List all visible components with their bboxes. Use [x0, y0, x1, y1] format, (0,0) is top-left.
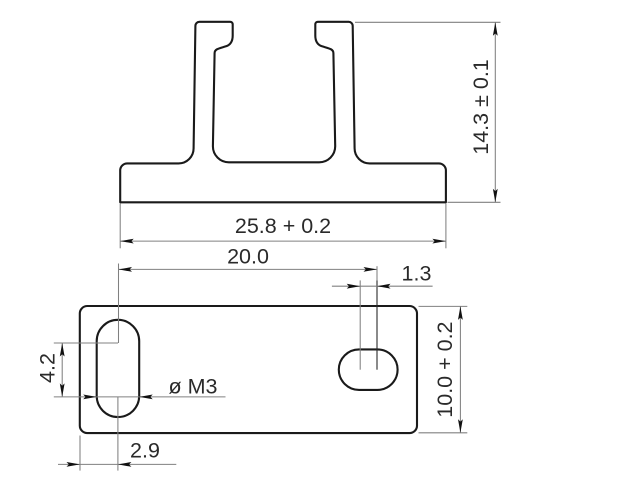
dim 1.3 arrow right (outside, pointing left): [377, 284, 391, 289]
profile outline (cross-section of bracket): [120, 22, 446, 203]
dim 4.2 dimension line: [61, 343, 63, 397]
dim 25.8 left extension line: [119, 204, 121, 249]
dim 25.8 arrow left: [120, 239, 134, 244]
dim 20.0 arrow left: [119, 267, 133, 272]
dim 4.2 arrow up: [60, 343, 65, 357]
dim 10.0 top extension line: [419, 305, 468, 307]
dim 1.3 left extension line: [359, 280, 361, 369]
dim 20.0 arrow right: [364, 267, 378, 272]
hole (right obround hole): [339, 349, 398, 390]
dim 2.9 arrow right (outside, pointing left): [118, 462, 131, 467]
svg-text:10.0 + 0.2: 10.0 + 0.2: [433, 321, 457, 417]
dim 4.2 arrow down: [60, 383, 65, 397]
dim 10.0 dimension line: [459, 306, 461, 432]
dim 25.8 arrow right: [432, 239, 446, 244]
svg-text:1.3: 1.3: [402, 262, 432, 286]
oM3 leader line (also 4.2 bottom extension): [54, 396, 226, 398]
svg-text:4.2: 4.2: [36, 353, 60, 383]
dim 1.3 dimension line: [332, 285, 433, 287]
slot centerline lower segment (2.9 right extension): [117, 397, 119, 471]
dim 14.3 dimension line: [494, 22, 496, 202]
dim 2.9 arrow left (outside, pointing right): [67, 462, 81, 467]
dim 20.0 dimension line: [119, 268, 378, 270]
svg-text:14.3 ± 0.1: 14.3 ± 0.1: [469, 59, 493, 154]
dim 10.0 bottom extension line: [419, 432, 468, 434]
dim 10.0 arrow up: [458, 306, 463, 320]
slot (left obround hole): [97, 320, 140, 417]
dim 4.2 top extension line: [54, 342, 118, 344]
plate outline (top view): [80, 306, 417, 433]
dim 14.3 top extension line: [355, 21, 501, 23]
oM3 arrow left (tip at slot left edge): [83, 395, 97, 400]
svg-text:20.0: 20.0: [227, 245, 269, 269]
dim 25.8 right extension line: [445, 204, 447, 249]
dim 14.3 arrow up: [493, 22, 498, 36]
dim 10.0 arrow down: [458, 419, 463, 433]
dim 2.9 dimension line: [58, 463, 176, 465]
dim 2.9 left extension line: [79, 436, 81, 471]
oM3 arrow right (tip at slot right edge): [139, 395, 153, 400]
dim 1.3 arrow left (outside, pointing right): [347, 284, 361, 289]
svg-text:25.8 + 0.2: 25.8 + 0.2: [235, 214, 331, 238]
dim 20.0 right extension line (upper, single): [376, 266, 378, 280]
slot centerline upper segment (20.0 left extension): [118, 264, 120, 344]
dim 20.0 / 1.3 shared extension line (doubled, darker): [376, 280, 378, 369]
svg-text:2.9: 2.9: [130, 439, 160, 463]
dim 14.3 arrow down: [493, 189, 498, 203]
svg-text:ø M3: ø M3: [169, 375, 218, 399]
dim 25.8 dimension line: [120, 240, 446, 242]
dim 14.3 bottom extension line: [448, 201, 501, 203]
